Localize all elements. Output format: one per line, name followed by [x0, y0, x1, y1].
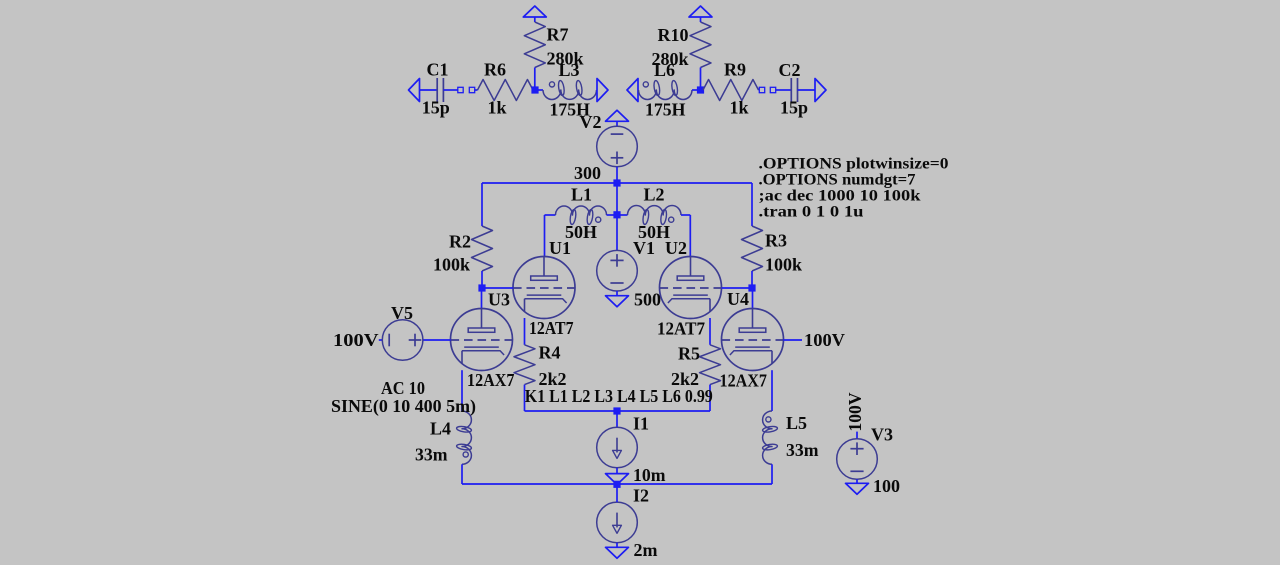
svg-text:100: 100 — [873, 476, 900, 496]
svg-text:12AT7: 12AT7 — [529, 318, 574, 338]
svg-text:;ac dec 1000 10 100k: ;ac dec 1000 10 100k — [759, 188, 921, 205]
svg-text:U2: U2 — [665, 238, 687, 258]
svg-text:12AT7: 12AT7 — [657, 319, 705, 339]
svg-text:I1: I1 — [633, 414, 649, 434]
svg-text:R6: R6 — [484, 60, 506, 80]
svg-text:R2: R2 — [449, 232, 471, 252]
svg-text:15p: 15p — [422, 98, 450, 118]
svg-text:1k: 1k — [730, 98, 749, 118]
svg-text:12AX7: 12AX7 — [467, 370, 515, 390]
svg-text:AC 10: AC 10 — [381, 378, 425, 398]
svg-text:.OPTIONS numdgt=7: .OPTIONS numdgt=7 — [759, 172, 916, 189]
svg-text:10m: 10m — [633, 465, 666, 485]
svg-text:100V: 100V — [333, 330, 379, 350]
svg-text:500: 500 — [634, 290, 661, 310]
svg-text:2m: 2m — [634, 540, 658, 560]
svg-text:100k: 100k — [765, 255, 802, 275]
svg-text:L2: L2 — [644, 185, 665, 205]
svg-text:300: 300 — [574, 163, 601, 183]
svg-text:.tran 0 1 0 1u: .tran 0 1 0 1u — [759, 204, 864, 221]
svg-text:100V: 100V — [845, 393, 865, 432]
svg-text:280k: 280k — [652, 49, 689, 69]
svg-text:R9: R9 — [724, 60, 746, 80]
svg-text:C1: C1 — [427, 60, 449, 80]
svg-text:12AX7: 12AX7 — [720, 371, 768, 391]
svg-text:175H: 175H — [645, 100, 686, 120]
svg-text:V3: V3 — [871, 425, 893, 445]
svg-text:33m: 33m — [786, 440, 819, 460]
svg-text:R4: R4 — [539, 343, 561, 363]
svg-text:U1: U1 — [549, 238, 571, 258]
svg-text:I2: I2 — [633, 486, 649, 506]
svg-text:R5: R5 — [678, 344, 700, 364]
svg-text:15p: 15p — [780, 98, 808, 118]
svg-text:R3: R3 — [765, 231, 787, 251]
svg-text:V1: V1 — [633, 238, 655, 258]
svg-text:C2: C2 — [779, 60, 801, 80]
svg-text:L5: L5 — [786, 413, 807, 433]
svg-text:SINE(0 10 400 5m): SINE(0 10 400 5m) — [331, 396, 476, 417]
svg-text:R7: R7 — [547, 25, 569, 45]
svg-text:R10: R10 — [658, 25, 689, 45]
svg-text:U4: U4 — [727, 289, 749, 309]
svg-text:L4: L4 — [430, 419, 451, 439]
svg-text:L1: L1 — [571, 185, 592, 205]
svg-text:K1 L1 L2 L3 L4 L5 L6 0.99: K1 L1 L2 L3 L4 L5 L6 0.99 — [525, 386, 713, 406]
svg-text:V5: V5 — [391, 303, 413, 323]
svg-text:33m: 33m — [415, 445, 448, 465]
svg-text:V2: V2 — [580, 112, 602, 132]
svg-text:.OPTIONS plotwinsize=0: .OPTIONS plotwinsize=0 — [759, 156, 949, 173]
svg-text:L3: L3 — [559, 60, 580, 80]
svg-text:U3: U3 — [488, 290, 510, 310]
svg-text:1k: 1k — [488, 98, 507, 118]
svg-text:100V: 100V — [804, 330, 845, 350]
svg-text:100k: 100k — [433, 255, 470, 275]
